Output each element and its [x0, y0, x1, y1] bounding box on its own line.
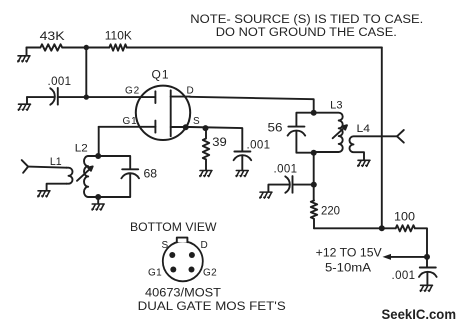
antenna (output) [397, 130, 404, 143]
wire (56 branch) [296, 113, 313, 153]
ground (under L2) [92, 204, 104, 210]
transistor Q1 (dual-gate MOSFET) [99, 86, 191, 140]
svg-text:.001: .001 [392, 270, 416, 282]
ground (under C2) [236, 171, 248, 177]
pin G2 [189, 267, 195, 273]
svg-text:220: 220 [321, 203, 340, 217]
capacitor C4 56 [288, 127, 306, 136]
svg-text:SeekIC.com: SeekIC.com [382, 306, 457, 322]
svg-text:DUAL GATE MOS FET'S: DUAL GATE MOS FET'S [138, 301, 286, 313]
ground (input cap, left) [18, 97, 30, 110]
ground (under L1) [38, 191, 50, 197]
svg-text:D: D [201, 240, 208, 251]
capacitor C5 .001 [285, 176, 292, 193]
svg-text:L4: L4 [357, 123, 371, 135]
capacitor C1 .001 [50, 88, 58, 105]
resistor R5 100 [396, 225, 415, 231]
svg-text:.001: .001 [247, 140, 271, 152]
wire [314, 227, 396, 229]
svg-text:G1: G1 [148, 268, 162, 279]
wire [27, 47, 41, 49]
wire (supply vertical) [381, 48, 383, 229]
inductor L2 (variable) [84, 156, 98, 197]
svg-text:40673/MOST: 40673/MOST [145, 288, 221, 300]
svg-text:G1: G1 [123, 116, 138, 127]
svg-text:56: 56 [268, 121, 283, 135]
node (S at case) [183, 124, 189, 130]
resistor R3 39 [203, 128, 209, 170]
node B [84, 94, 89, 99]
svg-text:G2: G2 [125, 86, 140, 97]
node E [311, 182, 317, 188]
node D (supply junction) [379, 225, 385, 231]
svg-text:L1: L1 [50, 156, 62, 168]
inductor L4 [350, 136, 398, 160]
capacitor C6 .001 [419, 257, 437, 285]
wire (bias vertical) [85, 48, 87, 98]
wire [415, 228, 427, 257]
wire (drain to tank) [190, 97, 314, 113]
resistor R4 220 [311, 201, 317, 229]
wire (tank bottom down) [313, 153, 315, 201]
svg-text:39: 39 [212, 135, 227, 149]
wire (source rail) [190, 127, 242, 152]
svg-text:68: 68 [144, 166, 158, 180]
svg-text:100: 100 [394, 210, 415, 224]
pinout case circle [163, 238, 203, 282]
node A [84, 45, 89, 50]
svg-text:NOTE- SOURCE (S) IS TIED TO CA: NOTE- SOURCE (S) IS TIED TO CASE. [190, 14, 423, 26]
arrow (L2 adjust) [77, 166, 93, 180]
arrow (+12V feed) [388, 256, 427, 258]
arrow (L3 adjust) [333, 125, 347, 138]
svg-text:G2: G2 [203, 268, 217, 279]
wire [268, 185, 288, 192]
wire [27, 96, 54, 98]
wire [28, 167, 66, 168]
wire [62, 47, 109, 49]
node (L2 top) [95, 153, 101, 159]
node (tank2 bottom) [311, 150, 317, 156]
pin D [189, 252, 195, 258]
ground (input bias, top left) [18, 48, 30, 62]
svg-text:DO NOT GROUND THE CASE.: DO NOT GROUND THE CASE. [216, 27, 397, 39]
svg-text:L3: L3 [330, 100, 342, 112]
node C [203, 125, 209, 131]
svg-text:+12 TO 15V: +12 TO 15V [316, 246, 382, 260]
wire [97, 197, 99, 204]
node F [424, 254, 430, 260]
capacitor C3 68 [121, 169, 139, 178]
svg-text:Q1: Q1 [152, 68, 170, 82]
wire [293, 184, 314, 186]
wire [58, 96, 155, 98]
resistor R1 43K [40, 44, 62, 50]
node (tank2 top) [311, 110, 317, 116]
capacitor C2 .001 (source bypass) [234, 152, 252, 170]
svg-text:L2: L2 [75, 142, 88, 154]
wire (G1 down to L2 tank) [98, 127, 100, 156]
svg-text:.001: .001 [274, 164, 298, 176]
svg-text:43K: 43K [40, 29, 65, 43]
ground (under C6) [420, 285, 432, 291]
svg-text:D: D [187, 85, 194, 96]
svg-text:S: S [193, 116, 200, 127]
pin S [169, 252, 175, 258]
svg-text:BOTTOM VIEW: BOTTOM VIEW [130, 222, 217, 234]
node (L2 bottom) [95, 194, 101, 200]
svg-text:110K: 110K [105, 29, 132, 43]
svg-text:5-10mA: 5-10mA [325, 261, 371, 275]
wire [47, 184, 67, 191]
wire (68 branch) [98, 156, 130, 197]
ground (under C5) [260, 192, 272, 198]
pin G1 [170, 267, 176, 273]
inductor L3 (variable) [314, 113, 343, 152]
inductor L1 [67, 168, 73, 184]
ground (under 39) [200, 171, 212, 177]
ground (under L4) [358, 160, 370, 166]
antenna (input) [22, 160, 28, 173]
resistor R2 110K [109, 44, 126, 50]
svg-text:.001: .001 [48, 76, 72, 88]
wire (top rail to supply corner) [127, 47, 382, 49]
svg-text:S: S [162, 240, 169, 251]
